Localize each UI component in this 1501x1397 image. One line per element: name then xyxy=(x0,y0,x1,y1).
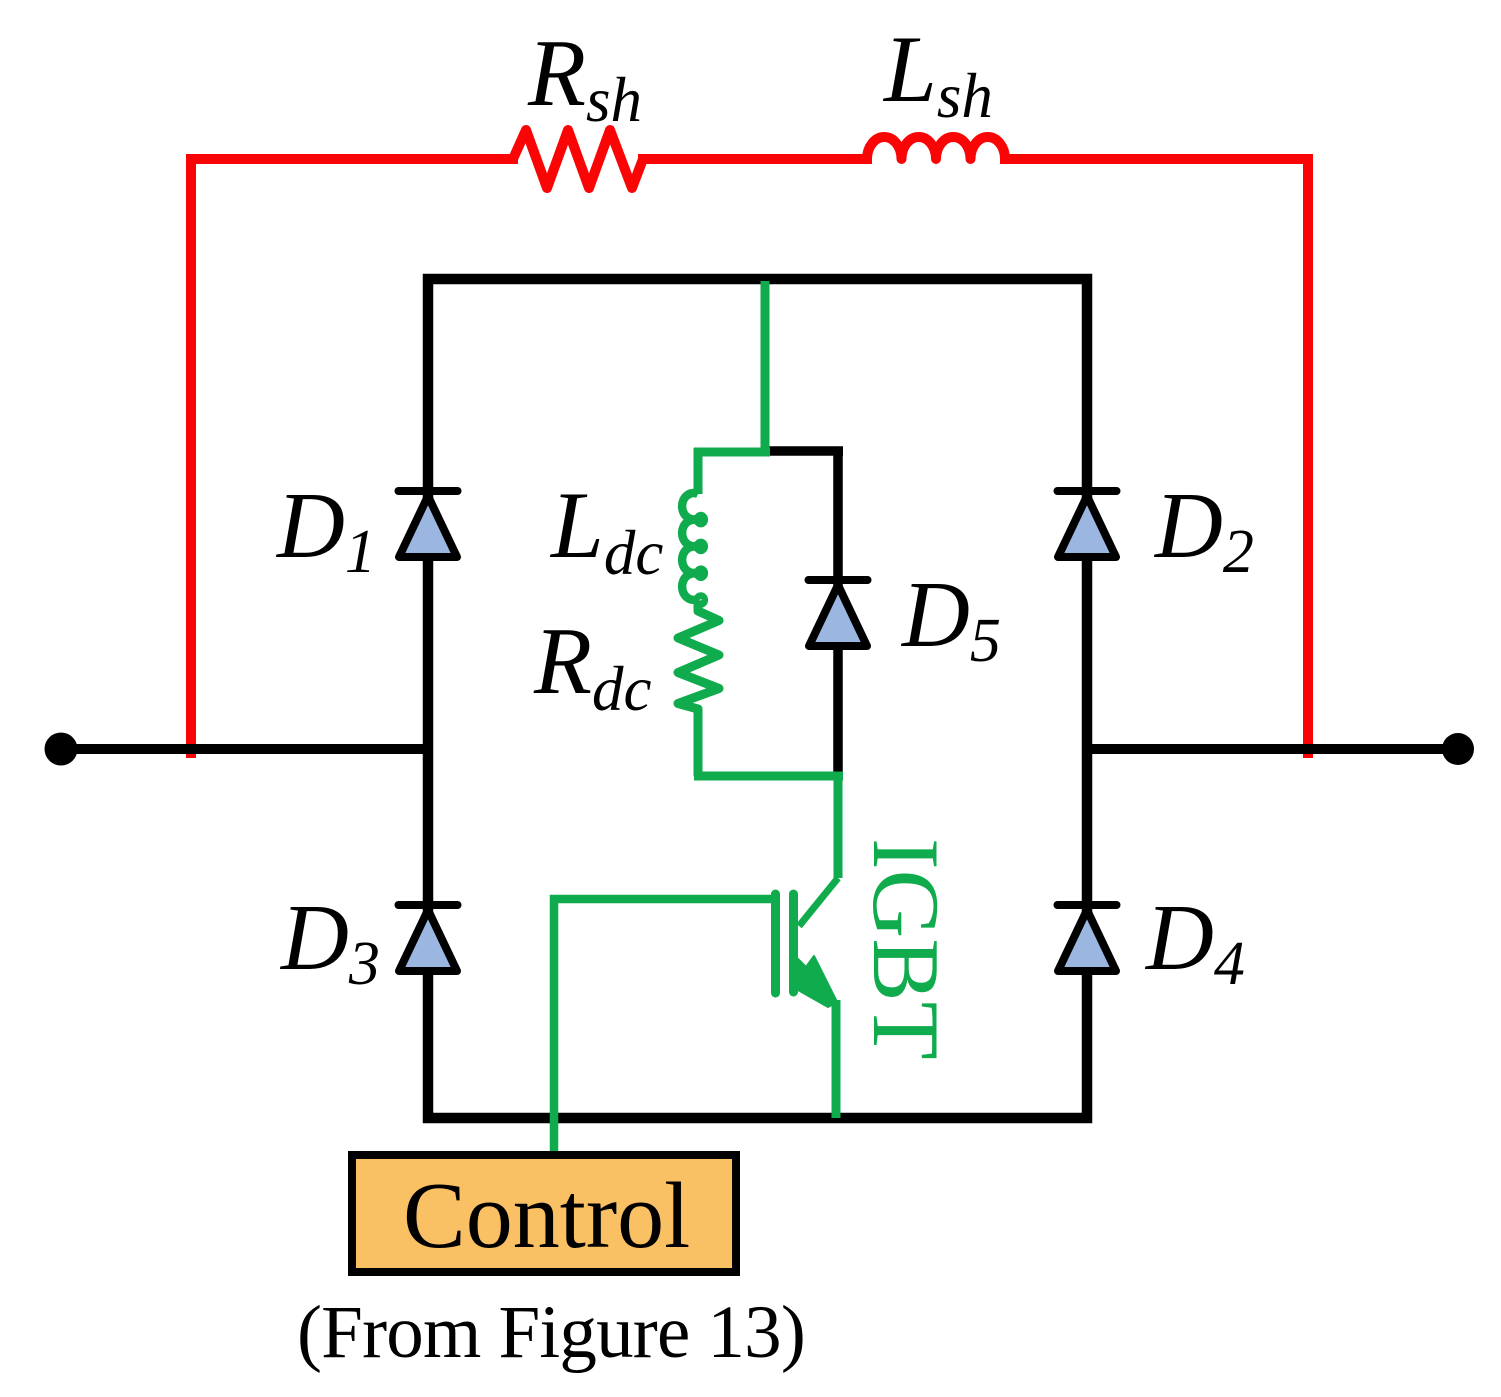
svg-text:Control: Control xyxy=(403,1164,690,1268)
svg-text:IGBT: IGBT xyxy=(853,838,959,1060)
svg-text:(From Figure 13): (From Figure 13) xyxy=(297,1291,805,1374)
